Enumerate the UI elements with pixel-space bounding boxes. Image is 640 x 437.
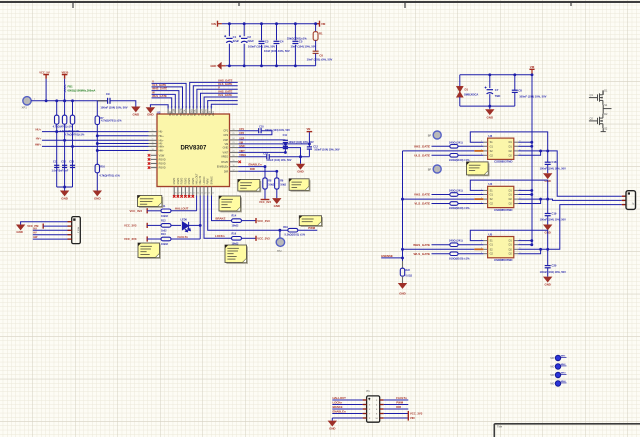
wire U4 S2 stub orange xyxy=(474,198,483,200)
wire VM row xyxy=(238,143,309,145)
svg-text:C19: C19 xyxy=(552,211,557,215)
svg-text:C14: C14 xyxy=(263,152,268,155)
junction xyxy=(63,99,66,102)
U4 pin stubs xyxy=(483,190,518,203)
power port VIN xyxy=(217,21,219,27)
ground GND left of cap bank xyxy=(217,62,222,70)
wire P1 pin9 to ground xyxy=(332,417,362,419)
svg-text:HW: HW xyxy=(33,236,38,239)
wire XS1 pin4 HV xyxy=(33,234,68,236)
wire LED1 to FAULTn net xyxy=(189,224,201,226)
wire C9 to ground xyxy=(110,101,136,107)
svg-text:ULS_GATE: ULS_GATE xyxy=(414,153,430,157)
wire gray segment to C9 xyxy=(97,100,107,102)
resistor R13 10k xyxy=(147,238,161,240)
svg-text:GND: GND xyxy=(132,113,140,117)
junction xyxy=(55,99,58,102)
svg-text:WLSG: WLSG xyxy=(172,109,175,116)
svg-text:HALLOUT: HALLOUT xyxy=(196,173,199,185)
note N1 left of chip bottom xyxy=(138,196,164,208)
svg-text:R14: R14 xyxy=(232,215,237,218)
svg-text:25: 25 xyxy=(232,133,234,135)
svg-text:4.7kΩ(4701)±1%: 4.7kΩ(4701)±1% xyxy=(65,133,85,137)
test point XP1 xyxy=(23,97,31,105)
svg-text:100nF (104) 10%, 50V: 100nF (104) 10%, 50V xyxy=(540,166,567,170)
svg-text:FAULTn: FAULTn xyxy=(178,235,189,239)
svg-text:RSVD: RSVD xyxy=(159,167,166,170)
wire U3 D2 to phase node xyxy=(518,150,548,152)
wire U5 drains to VM bus xyxy=(518,240,532,242)
svg-text:C12: C12 xyxy=(61,161,66,164)
wire P1 right FAULTn xyxy=(384,399,409,401)
wire HSENSE tap xyxy=(381,257,402,259)
svg-text:G2: G2 xyxy=(490,154,494,157)
wire hall row HV+ xyxy=(42,139,149,141)
svg-text:FAULTn: FAULTn xyxy=(199,175,202,184)
svg-text:100nF (104) 10%, 50V: 100nF (104) 10%, 50V xyxy=(100,105,127,109)
svg-text:DIR: DIR xyxy=(224,170,229,173)
note N6 mid xyxy=(219,196,242,212)
wire P1 right DIR xyxy=(384,408,409,410)
svg-text:VCC_3V3: VCC_3V3 xyxy=(124,224,137,228)
capacitor C1 22uF xyxy=(225,36,233,44)
wire hall row HW- xyxy=(97,150,148,152)
svg-text:D1: D1 xyxy=(465,87,469,91)
power port VCC_3V3 below R8 xyxy=(264,189,266,199)
ic U2 DRV8307 body xyxy=(157,114,230,187)
svg-text:1k02: 1k02 xyxy=(161,229,167,232)
junction xyxy=(401,198,404,201)
wire C6 to bottom rail xyxy=(315,53,317,65)
capacitor C6 10nF xyxy=(313,51,319,53)
capacitor C19 phase snubber xyxy=(547,199,549,213)
svg-text:P1: P1 xyxy=(367,389,371,393)
svg-text:MO: MO xyxy=(550,366,554,369)
svg-text:18: 18 xyxy=(232,165,234,167)
wire R10 to ground xyxy=(96,173,98,191)
svg-text:VCC_3V3: VCC_3V3 xyxy=(259,200,271,204)
capacitor C2 22uF xyxy=(240,36,248,44)
svg-text:240Ω (241): 240Ω (241) xyxy=(449,189,463,193)
capacitor hall filter at x=64.6 xyxy=(62,165,67,167)
resistor U4 high-side gate xyxy=(432,194,450,196)
svg-text:TP2: TP2 xyxy=(277,250,282,253)
svg-text:100nF (104) 10%, 50V: 100nF (104) 10%, 50V xyxy=(265,129,291,132)
svg-text:VB20: VB20 xyxy=(62,70,69,74)
svg-text:R19: R19 xyxy=(283,226,288,229)
U2 top pin names xyxy=(168,109,214,117)
power port VM right of cap bank xyxy=(319,21,321,27)
svg-text:C11: C11 xyxy=(283,134,288,137)
svg-text:GND: GND xyxy=(329,427,335,431)
wire XP1 to filter network xyxy=(31,100,107,102)
svg-text:26: 26 xyxy=(232,129,234,131)
svg-text:4.7kΩ(4701)±1%: 4.7kΩ(4701)±1% xyxy=(53,125,73,129)
connector P1 pin numbers xyxy=(369,400,379,420)
resistor R7 4.7k xyxy=(96,101,98,116)
svg-text:VCP: VCP xyxy=(223,139,228,142)
wire XS1 pin2 xyxy=(43,225,67,227)
capacitor C9 100nF xyxy=(108,98,110,104)
wire LOCKn xyxy=(204,196,232,239)
test point TP2 on PWM xyxy=(279,230,281,238)
svg-text:FAULTn: FAULTn xyxy=(396,396,407,400)
wire cap column x=261.5 xyxy=(261,24,263,66)
svg-text:VCC_3V3: VCC_3V3 xyxy=(257,219,270,223)
junction xyxy=(260,22,263,25)
mounting hole MH2 xyxy=(555,364,560,369)
wire cap column x=295.4 xyxy=(294,24,296,66)
wire VM filter bottom rail xyxy=(460,105,515,107)
resistor U3 low-side gate xyxy=(432,154,450,156)
svg-text:Title: Title xyxy=(497,425,503,429)
wire U2 gate right UHS_GATE xyxy=(190,82,238,108)
svg-text:LOCKn: LOCKn xyxy=(215,234,225,238)
junction xyxy=(63,186,66,189)
junction xyxy=(275,170,278,173)
wire hall row HV- xyxy=(97,143,148,145)
svg-text:LOCKn: LOCKn xyxy=(203,176,206,185)
svg-text:100nF (104) 10%, 50V: 100nF (104) 10%, 50V xyxy=(540,270,567,274)
wire VIN top rail xyxy=(218,23,222,25)
svg-text:ENABLEn: ENABLEn xyxy=(333,409,346,413)
resistor R4 4.7k pull-up xyxy=(72,101,74,115)
wire U2 gate right spare xyxy=(211,104,237,109)
svg-text:R10: R10 xyxy=(100,165,105,168)
svg-text:10kΩ: 10kΩ xyxy=(268,184,274,187)
junction xyxy=(299,155,302,158)
wire hall row HW+ xyxy=(42,145,149,147)
svg-text:HSN: HSN xyxy=(208,111,211,116)
junction xyxy=(264,165,267,168)
svg-text:GND: GND xyxy=(61,196,69,200)
capacitor C5 10nF xyxy=(291,40,299,44)
svg-text:VM: VM xyxy=(321,22,326,26)
svg-text:GND: GND xyxy=(210,64,216,68)
svg-text:GND: GND xyxy=(544,282,550,286)
svg-text:10k02: 10k02 xyxy=(161,215,169,218)
capacitor C14 VREG xyxy=(267,154,269,159)
resistor R9 DIR pull-down xyxy=(276,171,278,178)
wire U2 PAD pin to ground xyxy=(150,105,168,109)
wire U5 S1 loop to phase xyxy=(470,230,547,249)
svg-text:C7: C7 xyxy=(495,88,499,92)
svg-text:C20: C20 xyxy=(552,263,557,267)
ferrite bead FB1 xyxy=(64,84,66,92)
ground GND below R9 xyxy=(276,189,278,198)
svg-text:CSD88537ND: CSD88537ND xyxy=(494,160,512,164)
svg-text:VREG: VREG xyxy=(221,156,228,159)
wire hall row HU+ xyxy=(42,131,149,133)
capacitor C11 VCP xyxy=(283,140,288,142)
svg-text:ENABLEn: ENABLEn xyxy=(249,162,262,166)
svg-text:PWM: PWM xyxy=(396,400,404,404)
mounting hole MH3 xyxy=(555,372,560,377)
power port VM above filter xyxy=(529,68,534,70)
svg-text:VM: VM xyxy=(306,127,310,131)
svg-text:VCC_3V3: VCC_3V3 xyxy=(257,237,270,241)
junction xyxy=(275,22,278,25)
svg-text:HW-: HW- xyxy=(159,150,164,153)
svg-text:BRAKE: BRAKE xyxy=(211,176,214,185)
svg-text:RSVD: RSVD xyxy=(184,177,187,184)
U2 left hall pin stubs xyxy=(149,132,158,151)
diode D1 TVS xyxy=(459,75,461,87)
svg-text:V: V xyxy=(218,85,220,89)
junction xyxy=(488,105,491,108)
svg-text:LED6: LED6 xyxy=(181,219,188,222)
wire VM filter top rail xyxy=(460,74,532,76)
svg-text:RSVD: RSVD xyxy=(188,177,191,184)
wire U2 gate W xyxy=(152,94,176,108)
wire U2 gate right spare xyxy=(208,101,238,109)
junction xyxy=(199,224,202,227)
svg-text:C11: C11 xyxy=(53,161,58,164)
svg-text:100nF (104) 10%, 50V: 100nF (104) 10%, 50V xyxy=(314,149,340,152)
svg-text:U2: U2 xyxy=(157,111,161,115)
resistor R16 10k LOCKn pull-up xyxy=(232,237,242,241)
wire U2 gate WLS_GATE xyxy=(152,98,172,109)
svg-text:C4: C4 xyxy=(280,40,284,44)
resistor R8 ENABLEn pull-up xyxy=(264,167,266,178)
svg-text:G1: G1 xyxy=(490,194,494,197)
svg-text:HALLOUT: HALLOUT xyxy=(175,207,189,211)
wire ENABLEn xyxy=(238,166,265,168)
title block xyxy=(494,424,640,437)
wire DIR xyxy=(238,170,277,172)
svg-text:33kΩ(3301)±1%: 33kΩ(3301)±1% xyxy=(287,36,307,40)
svg-text:1.0nF/3nF/1nF: 1.0nF/3nF/1nF xyxy=(52,170,69,173)
U2 left hall pin names xyxy=(159,131,165,153)
wire VCP row xyxy=(238,139,285,141)
wire FAULTn xyxy=(171,238,200,240)
wire R19 to PWM label xyxy=(298,229,318,231)
svg-text:GND: GND xyxy=(297,170,303,174)
wire VINT row xyxy=(238,151,285,153)
wire U2 gate WHS_GATE xyxy=(152,91,179,109)
svg-text:HU: HU xyxy=(33,227,37,230)
U2 bottom signal pin stubs xyxy=(197,187,212,196)
capacitor C18 phase snubber xyxy=(547,151,549,162)
svg-text:BP: BP xyxy=(428,167,432,171)
wire XS1 pin5 HW xyxy=(33,238,68,240)
capacitor C20 phase snubber xyxy=(547,249,549,265)
wire hall row HU- xyxy=(97,135,148,137)
U2 bottom pin names xyxy=(173,173,213,185)
wire hall filter bottom rail xyxy=(57,186,73,188)
power port VCC_3V3 right of R14 xyxy=(242,220,257,222)
wire cap column x=276.5 xyxy=(276,24,278,66)
ground GND below P1 left xyxy=(328,421,337,427)
resistor R14 10k BRAKE pull-up xyxy=(232,219,242,223)
wire R4 column xyxy=(72,124,74,187)
resistor R2 4.7k pull-up xyxy=(56,101,58,115)
svg-text:GND: GND xyxy=(486,115,494,119)
svg-text:C8: C8 xyxy=(518,88,522,92)
svg-text:VCC_3V3: VCC_3V3 xyxy=(410,412,423,416)
resistor R11 10k xyxy=(147,210,161,212)
ground GND left of U2 top xyxy=(146,107,155,113)
svg-text:WLS_GATE: WLS_GATE xyxy=(414,252,430,256)
svg-text:MO: MO xyxy=(550,374,554,377)
svg-text:7: 7 xyxy=(152,139,153,141)
svg-text:VCC_5V: VCC_5V xyxy=(39,70,50,74)
U2 left VSW RSVD pins no-connect xyxy=(151,155,158,167)
svg-text:4.7kΩ(4701) ±1%: 4.7kΩ(4701) ±1% xyxy=(101,119,122,123)
wire U2 gate right V xyxy=(197,89,238,108)
resistor U3 high-side gate xyxy=(432,145,450,147)
svg-text:21: 21 xyxy=(232,151,234,153)
svg-text:R16: R16 xyxy=(232,232,237,235)
wire R12 to LED1 xyxy=(171,224,181,226)
junction xyxy=(63,99,66,102)
note N3 bottom center xyxy=(225,245,248,264)
svg-text:22uF: 22uF xyxy=(247,39,254,43)
svg-text:23: 23 xyxy=(232,142,234,144)
svg-text:DRV8307: DRV8307 xyxy=(180,146,207,152)
wire VM bus vertical xyxy=(531,75,533,245)
svg-text:VLSG: VLSG xyxy=(182,110,185,117)
svg-text:8: 8 xyxy=(152,142,153,144)
capacitor hall filter at x=56.7 xyxy=(54,165,59,167)
capacitor C8 100nF xyxy=(514,75,516,90)
svg-text:R22: R22 xyxy=(406,269,411,272)
wire U3 S1 loop to phase xyxy=(470,132,547,151)
svg-text:UHS_GATE: UHS_GATE xyxy=(414,144,430,148)
wire P1 right PWM xyxy=(384,404,409,406)
junction xyxy=(71,99,74,102)
svg-text:HU-: HU- xyxy=(159,131,164,134)
resistor U5 high-side gate xyxy=(432,244,450,246)
resistor U4 low-side gate xyxy=(432,203,450,205)
U2 right RSVD no-connect xyxy=(238,161,241,164)
svg-text:G2: G2 xyxy=(490,203,494,206)
svg-text:TBD: TBD xyxy=(495,94,501,98)
svg-text:0.01Ω: 0.01Ω xyxy=(406,274,413,277)
svg-text:VM: VM xyxy=(530,65,535,69)
svg-text:240Ω (241): 240Ω (241) xyxy=(449,239,463,243)
wire GND row xyxy=(238,148,300,164)
wire R7 to R10 xyxy=(96,125,98,165)
note N4 right of chip xyxy=(238,180,261,193)
U2 top pin numbers xyxy=(167,107,213,109)
svg-text:RSVD: RSVD xyxy=(159,158,166,161)
ground GND hall filters xyxy=(64,187,66,191)
svg-text:20: 20 xyxy=(232,155,234,157)
wire cap column x=244.2 xyxy=(243,24,245,66)
test point BP2 xyxy=(433,165,441,173)
svg-text:100nF (104) 10%, 50V: 100nF (104) 10%, 50V xyxy=(540,218,567,222)
svg-text:GND: GND xyxy=(94,196,102,200)
resistor R3 4.7k pull-up xyxy=(64,101,66,115)
svg-text:U: U xyxy=(197,114,200,116)
svg-text:RSVD: RSVD xyxy=(159,163,166,166)
wire HALLOUT xyxy=(171,210,197,212)
svg-text:G2: G2 xyxy=(490,253,494,256)
svg-text:C3: C3 xyxy=(265,40,269,44)
wire FB1 to node xyxy=(64,92,66,100)
wire BRAKE xyxy=(212,196,232,221)
U2 bottom pin numbers xyxy=(175,193,215,195)
wire U4 S1 loop to phase xyxy=(470,180,547,199)
svg-text:HW+: HW+ xyxy=(159,145,165,148)
svg-text:VHS_GATE: VHS_GATE xyxy=(414,193,430,197)
wire PWM xyxy=(208,196,288,231)
note N2 lower left xyxy=(138,243,161,259)
svg-text:PWM: PWM xyxy=(207,179,210,185)
svg-text:CSD88537ND: CSD88537ND xyxy=(494,258,512,262)
svg-text:9: 9 xyxy=(152,145,153,147)
svg-text:10nF (103) ±5%, 50V: 10nF (103) ±5%, 50V xyxy=(307,58,333,62)
resistor R22 sense xyxy=(402,261,404,268)
wire R2 column xyxy=(56,124,58,187)
svg-text:U5: U5 xyxy=(488,232,492,236)
wire U5 S2 stub orange xyxy=(474,248,483,250)
sheet top border xyxy=(0,1,640,3)
svg-text:GND: GND xyxy=(16,230,22,234)
svg-text:LOCKn: LOCKn xyxy=(333,400,343,404)
svg-text:PAD: PAD xyxy=(168,111,171,116)
svg-text:240Ω (241): 240Ω (241) xyxy=(449,140,463,144)
svg-text:UHSG: UHSG xyxy=(200,109,203,116)
wire XS1 pin1 to ground xyxy=(21,222,68,225)
capacitor C12 VM decoupling xyxy=(308,144,310,147)
capacitor C4 10nF xyxy=(273,40,281,44)
svg-text:HSP: HSP xyxy=(211,111,214,116)
ic U4 CSD88537ND body xyxy=(488,186,514,207)
wire U5 phase output xyxy=(548,205,622,250)
junction xyxy=(96,134,99,137)
connector J2 motor phases xyxy=(622,196,626,204)
wire P1 ENABLEn xyxy=(332,413,362,415)
svg-text:HSENSE: HSENSE xyxy=(381,254,393,258)
junction xyxy=(488,73,491,76)
junction xyxy=(278,229,281,232)
svg-text:GND: GND xyxy=(399,292,405,296)
svg-text:5.1kΩ(5101) ±1%: 5.1kΩ(5101) ±1% xyxy=(285,232,306,236)
svg-text:10kΩ: 10kΩ xyxy=(280,184,286,187)
junction xyxy=(243,22,246,25)
ground GND below sense resistor xyxy=(398,283,407,289)
ground GND below C18 xyxy=(547,164,549,173)
svg-text:HALLOUT: HALLOUT xyxy=(333,396,347,400)
U2 right pin stubs xyxy=(230,131,239,172)
U2 bottom RSVD pin stubs no-connect xyxy=(174,187,193,196)
svg-text:6: 6 xyxy=(152,134,153,136)
wire bottom rail of cap bank xyxy=(222,65,226,67)
svg-text:910Ω(9100) ±1%: 910Ω(9100) ±1% xyxy=(449,206,470,210)
wire U5 D2 to phase node xyxy=(518,248,548,250)
mounting hole MH1 xyxy=(555,355,560,360)
svg-text:UHS_GATE: UHS_GATE xyxy=(218,79,233,83)
wire XS1 pin3 HU xyxy=(33,229,68,231)
svg-text:DIR: DIR xyxy=(250,167,255,171)
junction xyxy=(45,99,48,102)
ground GND decoupling rail xyxy=(296,164,305,170)
wire R1 to C6 xyxy=(315,40,317,51)
wire U2 gate right ULS_GATE xyxy=(193,86,237,109)
svg-text:ULSG: ULSG xyxy=(204,109,207,116)
wire U3 S2 to sense line xyxy=(403,150,475,152)
svg-text:10nF (103) 10%, 50V: 10nF (103) 10%, 50V xyxy=(264,49,290,53)
wire U2 gate V xyxy=(152,83,187,108)
svg-text:C10: C10 xyxy=(259,125,264,128)
svg-text:RSVD: RSVD xyxy=(177,177,180,184)
ground GND below R10 xyxy=(93,191,102,197)
svg-text:VCC_3V3: VCC_3V3 xyxy=(130,209,143,213)
U5 pin numbers xyxy=(481,239,521,254)
wire U3 S2 stub orange xyxy=(474,150,483,152)
